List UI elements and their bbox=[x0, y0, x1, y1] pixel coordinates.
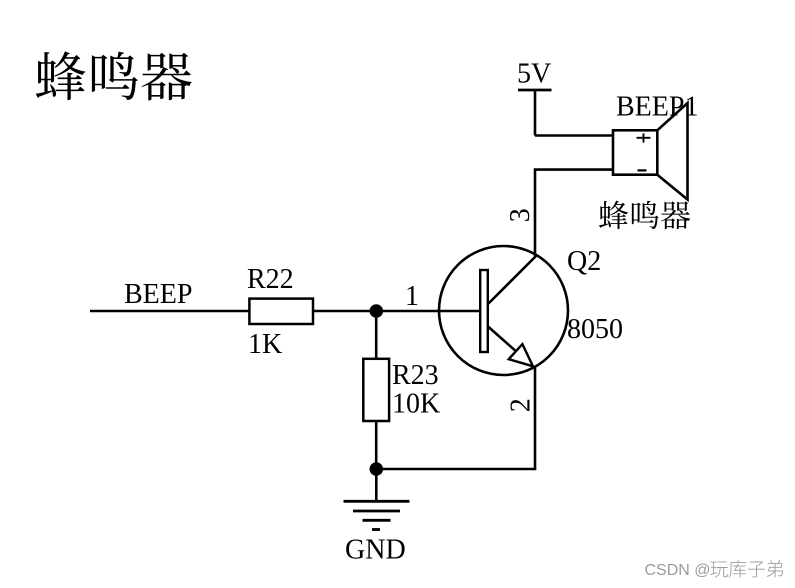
title 蜂鸣器 bbox=[36, 51, 192, 100]
wire buzzer bottom and collector riser bbox=[535, 170, 613, 256]
svg-text:R22: R22 bbox=[247, 264, 294, 295]
wire node down to R23 bbox=[375, 311, 378, 359]
wire R23 to ground node bbox=[375, 421, 378, 469]
transistor Q2 emitter arrow bbox=[509, 344, 533, 366]
buzzer minus terminal bbox=[638, 169, 647, 171]
node junction dot bbox=[370, 304, 384, 318]
transistor Q2 circle bbox=[439, 246, 568, 375]
svg-text:3: 3 bbox=[505, 208, 536, 222]
wire R22 to base bbox=[313, 310, 480, 313]
label 蜂鸣器 buzzer bbox=[599, 201, 690, 230]
node ground junction dot bbox=[370, 462, 384, 476]
svg-text:2: 2 bbox=[506, 398, 537, 412]
transistor Q2 collector line bbox=[488, 256, 536, 304]
svg-text:8050: 8050 bbox=[567, 314, 623, 345]
svg-text:BEEP: BEEP bbox=[124, 279, 192, 310]
ground symbol bbox=[344, 469, 410, 530]
svg-text:10K: 10K bbox=[392, 389, 440, 420]
buzzer plus terminal bbox=[637, 133, 651, 142]
svg-text:CSDN @: CSDN @ bbox=[645, 562, 711, 579]
wire 5V vertical bbox=[534, 90, 537, 136]
power 5V bar symbol bbox=[518, 89, 552, 92]
buzzer BEEP1 body bbox=[613, 130, 657, 174]
wire BEEP input bbox=[90, 310, 250, 313]
wire buzzer top bbox=[535, 134, 613, 137]
svg-text:R23: R23 bbox=[392, 360, 439, 391]
wire emitter vertical bbox=[534, 367, 537, 470]
transistor Q2 emitter line bbox=[488, 327, 533, 367]
svg-text:GND: GND bbox=[345, 535, 406, 566]
resistor R22 bbox=[249, 299, 313, 324]
transistor Q2 base bar bbox=[480, 270, 488, 352]
resistor R23 bbox=[363, 359, 389, 421]
svg-text:BEEP1: BEEP1 bbox=[616, 92, 698, 123]
svg-text:1K: 1K bbox=[248, 329, 282, 360]
wire bottom horizontal bbox=[376, 468, 536, 471]
watermark 玩库子弟 bbox=[710, 560, 783, 577]
svg-text:1: 1 bbox=[405, 281, 419, 312]
svg-text:Q2: Q2 bbox=[567, 246, 601, 277]
svg-text:5V: 5V bbox=[517, 59, 551, 90]
buzzer BEEP1 horn bbox=[657, 103, 688, 200]
